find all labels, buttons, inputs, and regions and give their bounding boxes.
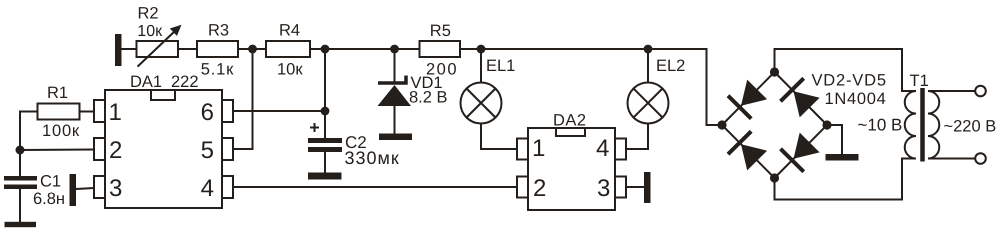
wire: R5 to EL2 node [460,48,648,50]
svg-text:8.2 В: 8.2 В [409,89,448,107]
wire: bridge right corner to ground [827,125,842,154]
svg-text:1: 1 [109,99,122,126]
terminal bar at DA2 pin 3 [644,172,651,203]
pin 3 (DA2) [615,177,626,198]
node: junction EL2 [644,45,653,54]
wire: junction down to EL1 [480,49,482,83]
wire: DA2 pin 3 to terminal bar [626,186,644,188]
ground (VD1) [379,134,412,141]
resistor R4 body [266,41,310,57]
wire: junction down to VD1 [394,49,396,83]
svg-text:4: 4 [596,135,609,162]
ground (C2) [308,173,342,180]
svg-text:1N4004: 1N4004 [825,90,887,108]
svg-text:5: 5 [201,137,214,164]
lamp EL1 [461,83,502,124]
svg-text:~10 В: ~10 В [858,116,903,135]
wire: T1 primary top to terminal [928,90,975,92]
transformer T1 secondary winding (~10 В) [905,91,916,159]
svg-text:10к: 10к [137,23,163,40]
svg-text:R4: R4 [279,22,300,40]
ground (C1) [5,222,37,227]
node: junction R3/R4 to DA1 pin5 [248,45,257,54]
wire: C1 to ground [19,189,21,222]
svg-text:DA2: DA2 [553,112,587,130]
svg-text:6: 6 [201,99,214,126]
pin 2 (DA1) [94,138,105,160]
zener diode VD1 [378,76,412,134]
wire: bridge edge lower-right [775,125,828,178]
node: bridge left corner [717,120,726,129]
svg-text:~220 В: ~220 В [944,118,997,136]
svg-text:2: 2 [109,137,122,164]
wire: EL2 to DA2 pin 4 [626,124,648,150]
diode VD5 (lower-right arm) [781,133,820,172]
node: junction left rail / pin 2 [16,146,25,155]
lamp EL2 [628,83,669,124]
diode bridge VD2-VD5 [722,72,827,178]
terminal bar at DA1 pin 3 [70,174,77,206]
wire: R2 to R3 [178,48,197,50]
svg-text:330мк: 330мк [345,148,400,168]
wire: R3 to R4 [238,48,266,50]
wire: bridge edge upper-right [775,72,828,125]
wire: bridge bottom corner to T1 secondary bottom [775,159,917,200]
resistor R1 body [38,104,80,120]
wire: left rail top to R1 [20,112,38,177]
svg-text:222: 222 [171,73,199,91]
wire: junction down to EL2 [647,49,649,83]
wire: left rail to DA1 pin 2 [20,149,94,152]
svg-text:5.1к: 5.1к [201,61,234,79]
svg-text:2: 2 [533,175,546,202]
node: junction VD1 [390,45,399,54]
node: bridge top corner [770,67,779,76]
svg-text:VD2-VD5: VD2-VD5 [812,72,887,90]
pin 6 (DA1) [222,100,233,122]
svg-text:4: 4 [201,175,214,202]
wire: top rail to bridge left corner [648,49,722,125]
svg-text:3: 3 [109,175,122,202]
wire: bridge top corner to T1 secondary top [775,49,917,91]
svg-text:10к: 10к [277,61,303,79]
capacitor C2 plates [308,138,342,152]
diode VD2 (upper-left arm) [728,80,767,119]
pin 4 (DA2) [615,139,626,160]
wire: bottom rail DA1 pin 4 to DA2 pin 2 [233,186,517,188]
svg-text:R5: R5 [430,22,451,40]
node: junction EL1 [477,45,486,54]
svg-text:100к: 100к [42,122,80,140]
svg-text:1: 1 [532,135,545,162]
svg-text:R1: R1 [47,84,68,102]
pin 3 (DA1) [94,176,105,198]
pin 5 (DA1) [222,138,233,160]
pin 1 (DA2) [517,139,528,160]
wire: T1 primary bottom to terminal [928,158,975,160]
wire: EL1 to DA2 pin 1 [481,124,517,150]
IC DA2 body [528,128,615,210]
svg-text:EL2: EL2 [656,57,685,75]
transformer T1 primary winding (~220 В) [928,91,939,159]
svg-text:R2: R2 [138,5,159,23]
pin 1 (DA1) [94,100,105,122]
wire: junction down to DA1 pin 5 [233,49,253,149]
wire: bridge edge upper-left [722,72,775,125]
diode VD4 (lower-left arm) [728,131,767,170]
pin 2 (DA2) [517,177,528,198]
node: junction pin6/C2 [321,107,330,116]
R2 wiper arrow [138,25,182,67]
terminal circle (mains top) [975,86,986,97]
wire: C2 to ground [324,152,326,173]
svg-text:C1: C1 [40,173,61,191]
resistor R3 body [197,41,238,57]
svg-text:200: 200 [426,61,458,79]
transformer T1 core [920,88,925,162]
wire: bridge edge lower-left [722,125,775,178]
capacitor C1 plates [4,176,37,189]
svg-text:6.8н: 6.8н [33,190,65,208]
wire: junction down to C2 [324,49,326,138]
svg-text:3: 3 [597,175,610,202]
svg-text:T1: T1 [910,72,929,90]
wire: DA1 pin 6 to C2 node [233,110,325,112]
pin 4 (DA1) [222,176,233,198]
terminal bar (input) left of R2 [115,34,122,66]
IC DA1 body [105,90,222,208]
label DA1 222 [130,73,199,91]
resistor R2 (variable) body [137,41,179,57]
wire: R1 to DA1 pin 1 [80,111,95,113]
wire: terminal bar to DA1 pin 3 [76,188,94,189]
svg-text:EL1: EL1 [486,57,515,75]
terminal circle (mains bottom) [975,153,986,164]
wire: input bar to R2 [122,48,137,50]
diode VD3 (upper-right arm) [781,78,820,117]
node: bridge bottom corner [770,173,779,182]
resistor R5 body [420,41,461,57]
node: bridge right corner [822,120,831,129]
ground (bridge) [826,154,859,161]
svg-text:R3: R3 [208,22,229,40]
wire: R4 to R5 [310,48,420,50]
svg-text:DA1: DA1 [130,73,162,91]
node: junction R4/C2 [321,45,330,54]
capacitor C2 plus sign [310,123,319,132]
